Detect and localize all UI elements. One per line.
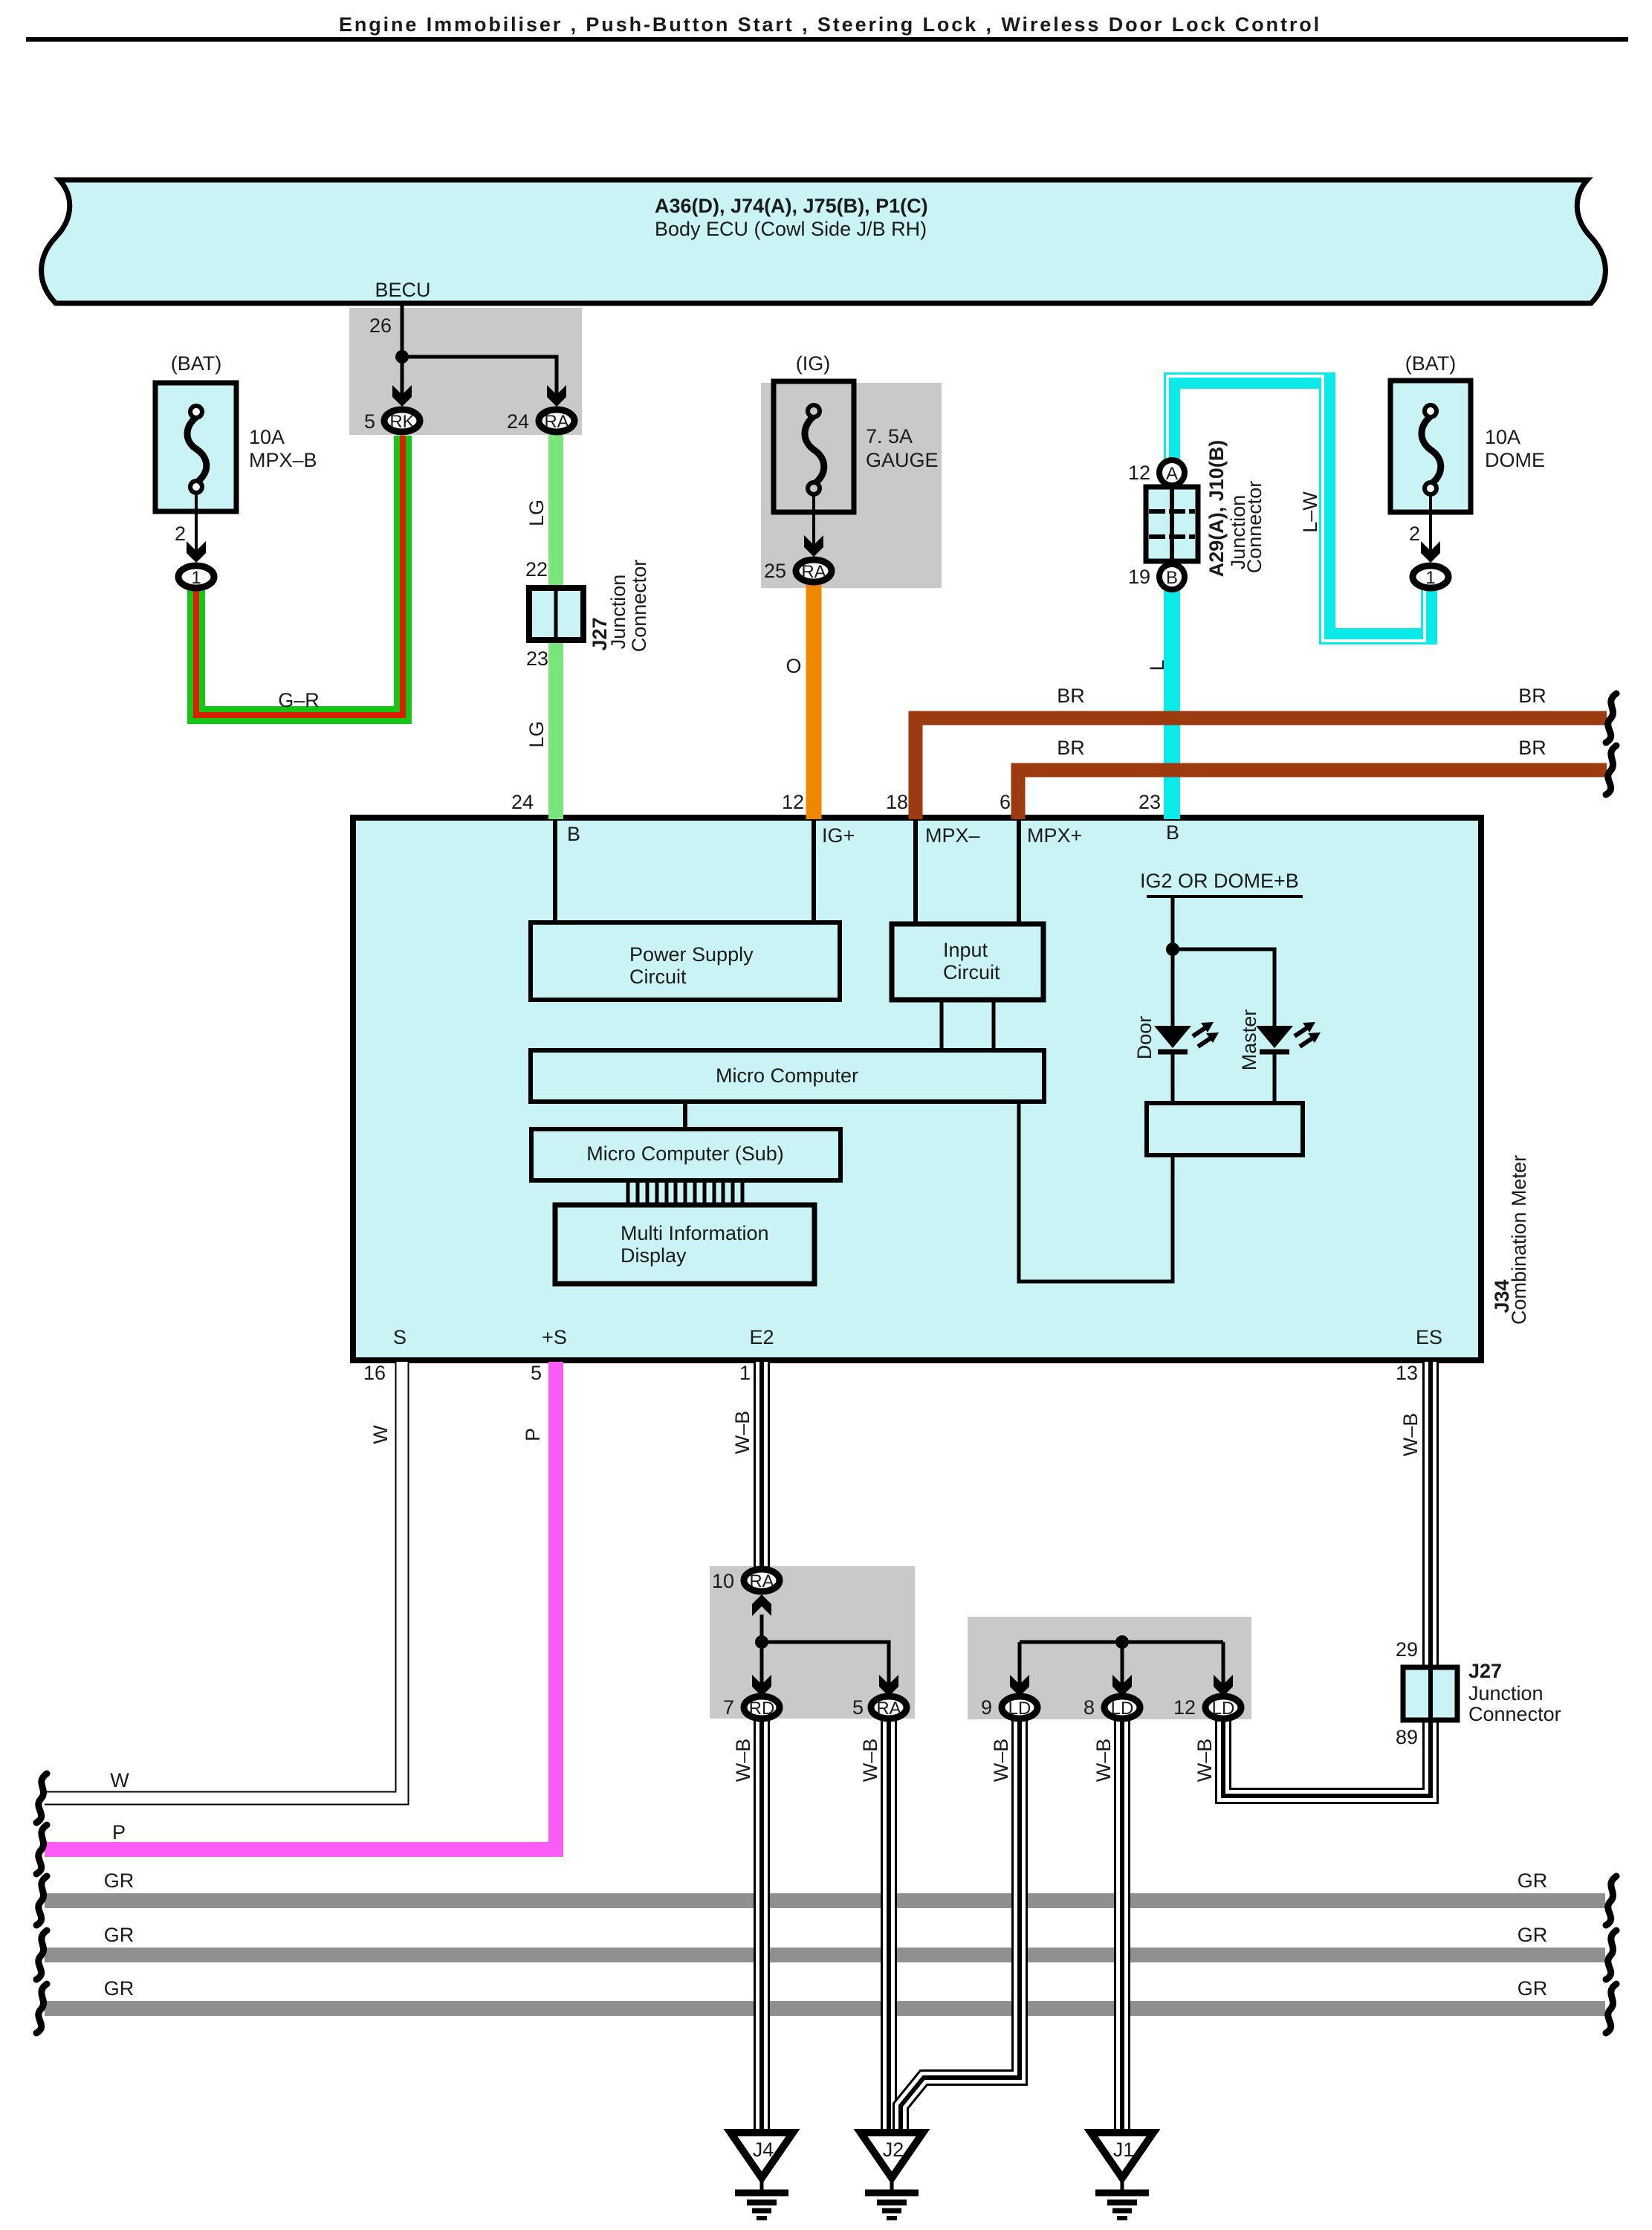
svg-text:RD: RD <box>749 1699 775 1719</box>
svg-text:19: 19 <box>1128 566 1150 588</box>
pin circle B <box>1159 564 1185 589</box>
svg-text:RK: RK <box>389 412 414 432</box>
svg-text:25: 25 <box>764 560 786 582</box>
wire GR 1 <box>45 1893 1605 1908</box>
svg-text:Junction: Junction <box>1468 1682 1544 1704</box>
wire Door LED cathode lead <box>1171 1052 1175 1105</box>
node junction dot LD bus <box>1115 1635 1129 1649</box>
svg-text:9: 9 <box>981 1696 992 1719</box>
wire fuse DOME pin 2 lead <box>1429 494 1432 555</box>
meter internal lead pin 18 MPX- <box>913 821 918 924</box>
junction connector J27 (LG wire) <box>529 588 583 640</box>
svg-text:BR: BR <box>1057 685 1085 707</box>
svg-text:Engine Immobiliser , Push-Butt: Engine Immobiliser , Push-Button Start ,… <box>339 13 1321 36</box>
break symbol GR1 left <box>36 1876 47 1925</box>
wire BR upper from meter pin 18 to right edge <box>916 718 1607 819</box>
svg-text:J2: J2 <box>883 2139 904 2161</box>
svg-text:89: 89 <box>1396 1726 1418 1748</box>
connector oval 10 RA <box>744 1569 780 1591</box>
svg-text:LD: LD <box>1111 1699 1134 1719</box>
power supply circuit box <box>531 922 840 1000</box>
arrow into RK <box>392 385 412 407</box>
svg-text:Connector: Connector <box>1468 1703 1561 1725</box>
micro computer box <box>531 1050 1044 1102</box>
svg-text:A36(D), J74(A), J75(B), P1(C): A36(D), J74(A), J75(B), P1(C) <box>655 195 928 217</box>
svg-text:B: B <box>567 823 580 845</box>
svg-text:W: W <box>110 1769 129 1791</box>
wire L cyan from junction B to meter pin 23 <box>1164 572 1180 819</box>
wire branch to Master LED <box>1173 949 1274 1027</box>
arrow into 8 LD <box>1112 1675 1132 1696</box>
svg-text:Multi Information: Multi Information <box>621 1222 769 1244</box>
connector oval 5 RA <box>871 1696 907 1719</box>
svg-text:(BAT): (BAT) <box>171 352 222 375</box>
wire Master LED cathode lead <box>1273 1052 1277 1105</box>
svg-text:W–B: W–B <box>1193 1739 1216 1783</box>
svg-text:W–B: W–B <box>1399 1413 1422 1457</box>
svg-text:Master: Master <box>1238 1009 1260 1071</box>
svg-text:BR: BR <box>1518 685 1546 707</box>
meter internal wire MPX+ to LED box <box>1019 1102 1173 1282</box>
svg-text:Body ECU (Cowl Side J/B RH): Body ECU (Cowl Side J/B RH) <box>655 218 927 240</box>
svg-text:P: P <box>112 1821 126 1843</box>
wire IG2 lead down to Door LED <box>1171 896 1175 1027</box>
shield grey box at IG GAUGE fuse <box>761 383 942 588</box>
arrow into 7 RD <box>752 1675 771 1696</box>
fuse 10A DOME <box>1390 381 1471 512</box>
break symbol P left <box>36 1825 47 1874</box>
connector oval 9 LD <box>1002 1696 1037 1719</box>
title: Engine Immobiliser , Push-Button Start , Steering Lock , Wireless Door Lock Control <box>26 13 1628 42</box>
ground J4 <box>731 2133 793 2218</box>
svg-text:Power Supply: Power Supply <box>629 943 754 966</box>
svg-text:Input: Input <box>943 939 988 961</box>
multi information display box <box>555 1205 814 1284</box>
svg-text:A29(A), J10(B): A29(A), J10(B) <box>1205 440 1228 578</box>
wire L-W white stripe <box>1167 376 1425 641</box>
svg-text:S: S <box>393 1326 406 1348</box>
svg-text:MPX+: MPX+ <box>1027 824 1082 847</box>
svg-text:L–W: L–W <box>1299 491 1321 533</box>
arrow into RA <box>547 385 566 407</box>
svg-text:GR: GR <box>104 1924 135 1946</box>
wire BECU pin 26 lead <box>401 306 404 357</box>
svg-text:2: 2 <box>1409 523 1420 545</box>
svg-text:ES: ES <box>1416 1326 1442 1348</box>
shield grey box at RA/RD connectors <box>710 1566 915 1719</box>
connector oval 7 RD <box>744 1696 780 1719</box>
svg-text:12: 12 <box>1128 462 1150 484</box>
fuse 7.5A GAUGE <box>774 381 854 512</box>
wire L-W cyan loop from junction A up over to fuse DOME <box>1172 381 1429 636</box>
svg-text:B: B <box>1166 568 1178 588</box>
svg-text:Connector: Connector <box>1243 481 1266 574</box>
svg-text:24: 24 <box>507 410 529 433</box>
shield grey box at BECU pins <box>349 308 582 435</box>
svg-text:Micro Computer: Micro Computer <box>716 1064 858 1087</box>
fuse 10A MPX-B <box>155 383 236 511</box>
arrow up into 10 RA <box>752 1594 771 1616</box>
wire fuse MPX-B pin 2 lead <box>195 493 198 555</box>
svg-text:(IG): (IG) <box>796 352 831 375</box>
break symbol GR1 right <box>1606 1876 1616 1925</box>
svg-text:5: 5 <box>852 1696 864 1719</box>
svg-text:LD: LD <box>1212 1699 1235 1719</box>
meter internal lead pin 6 MPX+ <box>1017 821 1021 924</box>
wire branch to 5 RA <box>762 1642 889 1688</box>
connector oval 8 LD <box>1104 1696 1140 1719</box>
svg-text:BR: BR <box>1057 737 1085 759</box>
svg-text:GR: GR <box>104 1869 135 1892</box>
svg-text:RA: RA <box>801 562 826 582</box>
svg-text:Connector: Connector <box>628 560 650 653</box>
svg-text:1: 1 <box>1425 568 1435 588</box>
svg-text:10A: 10A <box>1485 426 1520 448</box>
svg-text:24: 24 <box>511 791 534 813</box>
svg-text:8: 8 <box>1083 1696 1095 1719</box>
arrow into 9 LD <box>1010 1675 1029 1696</box>
wire GR 2 <box>45 1948 1605 1962</box>
wire LG from BECU pin 24 RA to meter pin 24 <box>548 434 563 819</box>
wire W-B from connector 8 LD to ground J1 <box>1114 1720 1130 2132</box>
wire to 8 LD <box>1121 1642 1124 1688</box>
svg-text:RA: RA <box>544 412 569 432</box>
shield grey box at LD connectors <box>968 1617 1251 1719</box>
break symbol BR2 right <box>1606 746 1616 795</box>
junction connector A29(A), J10(B) <box>1146 487 1198 561</box>
svg-text:BECU: BECU <box>375 279 430 301</box>
break symbol GR2 left <box>36 1930 47 1979</box>
svg-text:+S: +S <box>542 1326 567 1348</box>
svg-text:W–B: W–B <box>731 1411 754 1455</box>
svg-text:6: 6 <box>1000 791 1011 813</box>
wire W-B from connector 7 RD to ground J4 <box>754 1720 770 2132</box>
svg-text:7: 7 <box>723 1696 734 1719</box>
micro computer (sub) box <box>531 1129 840 1180</box>
wire W-B from meter pin ES through J27 to connector 12 LD <box>1223 1362 1431 1796</box>
wire to 9 LD <box>1018 1642 1022 1688</box>
connector oval BECU 5 RK <box>384 410 420 432</box>
svg-text:GAUGE: GAUGE <box>866 449 939 471</box>
wire W-B from connector 5 RA to ground J2 <box>881 1720 897 2132</box>
svg-text:Circuit: Circuit <box>943 961 1000 983</box>
svg-text:BR: BR <box>1518 737 1546 759</box>
arrow into connector 1 (MPX-B) <box>187 541 206 563</box>
svg-text:RA: RA <box>749 1571 774 1591</box>
svg-text:LD: LD <box>1008 1699 1031 1719</box>
svg-text:IG2 OR DOME+B: IG2 OR DOME+B <box>1140 870 1299 892</box>
wire input circuit to micro computer (right stub) <box>992 1000 996 1050</box>
svg-text:2: 2 <box>175 523 186 545</box>
svg-text:E2: E2 <box>749 1326 774 1348</box>
svg-text:RA: RA <box>876 1699 901 1719</box>
arrow into 12 LD <box>1214 1675 1233 1696</box>
svg-text:W–B: W–B <box>1092 1739 1115 1783</box>
break symbol W left <box>36 1774 47 1823</box>
wire GR 3 <box>45 2001 1605 2016</box>
svg-text:5: 5 <box>364 410 375 433</box>
wire W-B from meter pin E2 to connector 10 RA <box>754 1362 770 1568</box>
connector oval 12 LD <box>1205 1696 1241 1719</box>
svg-text:Display: Display <box>621 1244 687 1267</box>
svg-text:MPX–B: MPX–B <box>249 449 317 471</box>
svg-text:O: O <box>785 655 801 677</box>
pin circle A <box>1159 460 1185 485</box>
svg-text:13: 13 <box>1396 1362 1418 1384</box>
wire O orange from fuse GAUGE to meter pin 12 <box>806 584 822 819</box>
break symbol BR1 right <box>1606 694 1616 743</box>
wire branch 26 to RA <box>402 357 557 398</box>
svg-text:12: 12 <box>782 791 804 813</box>
svg-text:Micro Computer (Sub): Micro Computer (Sub) <box>586 1143 784 1165</box>
svg-text:12: 12 <box>1173 1696 1196 1719</box>
svg-text:Door: Door <box>1133 1016 1156 1060</box>
Body ECU bus bar A36(D), J74(A), J75(B), P1(C) <box>42 180 1606 303</box>
wire fuse GAUGE lead <box>812 494 815 549</box>
svg-text:10: 10 <box>712 1570 734 1592</box>
arrow into connector 1 (DOME) <box>1421 541 1440 563</box>
svg-text:5: 5 <box>531 1362 542 1384</box>
break symbol GR2 right <box>1606 1930 1616 1979</box>
connector oval BECU 24 RA <box>539 410 574 432</box>
svg-text:W–B: W–B <box>859 1739 881 1783</box>
wire BR lower from meter pin 6 to right edge <box>1018 770 1607 819</box>
svg-text:J4: J4 <box>753 2139 774 2161</box>
svg-text:LG: LG <box>525 721 548 748</box>
connector oval 1 (DOME) <box>1413 566 1448 588</box>
wire input circuit to micro computer (left stub) <box>940 1000 944 1050</box>
meter internal lead pin 24 B <box>553 821 557 924</box>
wire 10 RA to junction dot <box>760 1615 764 1642</box>
svg-text:Combination Meter: Combination Meter <box>1508 1155 1530 1325</box>
svg-text:MPX–: MPX– <box>925 824 980 847</box>
node junction dot on IG2 lead <box>1166 943 1179 956</box>
combination meter box J34 <box>353 818 1481 1360</box>
svg-text:B: B <box>1166 821 1179 844</box>
svg-text:LG: LG <box>525 500 548 526</box>
svg-text:23: 23 <box>1138 791 1161 813</box>
svg-text:P: P <box>522 1428 544 1441</box>
svg-text:J27: J27 <box>1468 1660 1502 1682</box>
break symbol GR3 left <box>36 1984 47 2033</box>
connector oval 25 RA <box>796 560 832 582</box>
connector oval 1 (MPX-B) <box>178 566 214 588</box>
svg-text:1: 1 <box>191 568 201 588</box>
svg-text:7. 5A: 7. 5A <box>866 425 913 447</box>
wire W-B from connector 9 LD to ground J2 <box>901 1720 1020 2132</box>
wire branch 26 to RK <box>401 357 404 398</box>
LED driver box <box>1147 1103 1303 1155</box>
meter internal lead pin 12 IG+ <box>812 821 816 924</box>
svg-text:J1: J1 <box>1113 2139 1135 2161</box>
svg-text:IG+: IG+ <box>822 824 855 847</box>
svg-text:18: 18 <box>886 791 908 813</box>
svg-text:L: L <box>1146 659 1168 670</box>
svg-text:1: 1 <box>739 1362 751 1384</box>
svg-text:GR: GR <box>1517 1977 1548 2000</box>
break symbol GR3 right <box>1606 1984 1616 2033</box>
svg-text:A: A <box>1166 464 1178 484</box>
wire micro computer to sub <box>683 1102 687 1129</box>
arrow into connector 25 RA <box>804 535 823 557</box>
LED Door <box>1154 1022 1219 1052</box>
node junction dot under BECU 26 <box>395 350 409 363</box>
wire LD bus <box>1020 1641 1223 1644</box>
svg-text:GR: GR <box>104 1977 135 2000</box>
svg-text:(BAT): (BAT) <box>1405 352 1457 375</box>
svg-text:Junction: Junction <box>607 575 629 650</box>
svg-text:23: 23 <box>526 647 548 670</box>
svg-text:W–B: W–B <box>732 1739 754 1783</box>
wire to 7 RD <box>760 1642 764 1688</box>
svg-text:22: 22 <box>525 558 548 581</box>
ground J1 <box>1091 2133 1153 2218</box>
wire P pink from meter pin +S to left edge <box>45 1362 556 1849</box>
svg-text:G–R: G–R <box>278 689 320 711</box>
svg-text:Circuit: Circuit <box>629 966 687 988</box>
svg-text:GR: GR <box>1517 1924 1548 1946</box>
svg-text:29: 29 <box>1396 1638 1418 1661</box>
wire to 12 LD <box>1222 1642 1225 1688</box>
wire W white from meter pin S to left edge <box>45 1362 402 1798</box>
node junction dot grey box 1 <box>755 1635 768 1649</box>
svg-text:W: W <box>369 1425 392 1444</box>
svg-text:10A: 10A <box>249 426 285 448</box>
svg-text:W–B: W–B <box>990 1739 1012 1783</box>
svg-text:16: 16 <box>363 1362 386 1384</box>
svg-text:26: 26 <box>369 314 392 337</box>
input circuit box <box>892 924 1043 1000</box>
wire G-R from fuse MPX-B to BECU pin 5 RK <box>196 436 403 715</box>
LED Master <box>1256 1022 1321 1052</box>
ground J2 <box>861 2133 923 2218</box>
arrow into 5 RA <box>879 1675 898 1696</box>
bus hatch between sub and display <box>628 1180 742 1205</box>
junction connector J27 (lower, ES wire) <box>1403 1667 1457 1720</box>
svg-text:GR: GR <box>1517 1869 1548 1892</box>
svg-text:DOME: DOME <box>1485 449 1545 471</box>
